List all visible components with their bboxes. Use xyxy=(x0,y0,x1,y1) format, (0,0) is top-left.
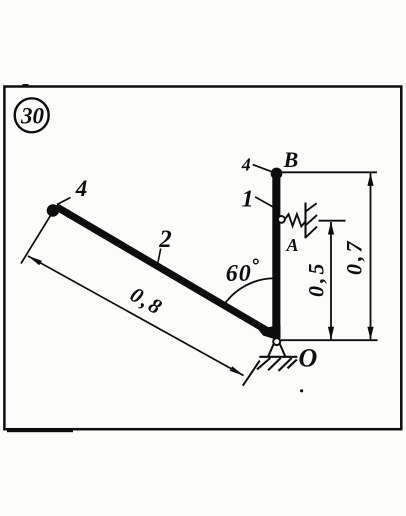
rod 2 (slanted bar) xyxy=(56,207,272,334)
arrow down of dimension 0,5 xyxy=(328,327,334,340)
svg-text:A: A xyxy=(285,235,298,255)
ground line under support xyxy=(259,356,297,358)
svg-text:4: 4 xyxy=(75,176,88,201)
figure frame xyxy=(4,87,401,430)
wall line of spring anchor xyxy=(304,203,306,239)
top border bump artifact xyxy=(23,84,29,87)
leader line from label 2 to rod 2 xyxy=(158,249,161,266)
dimension line 0,5 xyxy=(330,222,332,339)
support triangle left leg xyxy=(268,344,273,356)
arrow upper-left of dimension 0,8 xyxy=(28,256,42,266)
svg-text:60: 60 xyxy=(226,261,252,287)
leader line from top label 4 to dot B xyxy=(253,165,272,172)
svg-text:0,5: 0,5 xyxy=(303,261,328,298)
dimension line 0,7 xyxy=(370,173,372,339)
bottom reference line through O xyxy=(281,339,378,341)
degree sign xyxy=(254,259,259,264)
problem number circle 30 xyxy=(15,98,49,132)
leader line from label 1 to rod 1 xyxy=(255,197,273,207)
rod 1 (vertical bar) xyxy=(272,171,280,339)
svg-text:1: 1 xyxy=(242,186,254,212)
end mass dot on rod 2 (left end) xyxy=(47,204,59,216)
svg-text:30: 30 xyxy=(20,103,45,128)
spring zigzag xyxy=(285,214,306,226)
svg-text:4: 4 xyxy=(241,155,251,175)
ink speck artifact xyxy=(300,389,303,392)
ground hatch 3 xyxy=(279,358,292,371)
extension bar at level A for dimension 0,5 xyxy=(319,220,346,222)
junction wedge where rod 2 meets rod 1 at O xyxy=(258,325,281,341)
bottom border thick segment artifact xyxy=(7,430,73,432)
ground hatch 1 xyxy=(257,358,270,369)
wall hatch 1 xyxy=(306,203,317,211)
60 degree angle arc xyxy=(223,278,277,307)
dimension line 0,8 xyxy=(28,256,244,376)
svg-text:B: B xyxy=(283,147,299,172)
extension line at left dot for dimension 0,8 xyxy=(21,216,51,264)
svg-text:0,7: 0,7 xyxy=(342,239,367,276)
ground hatch 4 (short) xyxy=(288,360,297,369)
svg-text:O: O xyxy=(299,343,318,372)
arrow up of dimension 0,7 xyxy=(367,173,373,186)
spring attachment ring at A xyxy=(278,216,285,223)
extension line from B to dimension 0,7 xyxy=(282,171,377,173)
ground hatch 2 xyxy=(268,358,281,370)
wall hatch 2 xyxy=(306,215,317,225)
arrow up of dimension 0,5 xyxy=(328,222,334,235)
extension line near O for dimension 0,8 xyxy=(243,361,260,386)
leader line from label 4 to left dot xyxy=(57,198,71,205)
arrow lower-right of dimension 0,8 xyxy=(230,366,244,376)
wall hatch 3 xyxy=(305,227,317,238)
dot B (top mass) xyxy=(271,168,283,180)
support triangle right leg xyxy=(280,344,285,356)
pin joint circle at O xyxy=(273,338,280,345)
arrow down of dimension 0,7 xyxy=(367,327,373,340)
